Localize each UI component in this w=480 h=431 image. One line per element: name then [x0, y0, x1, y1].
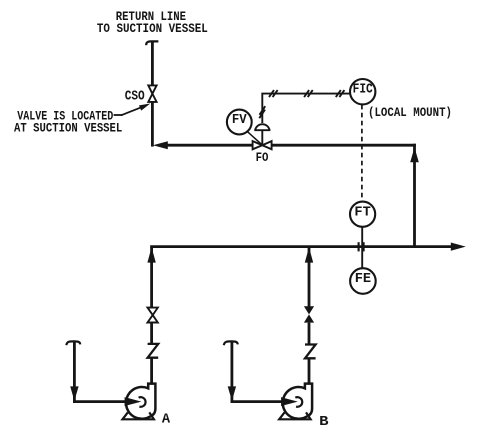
instrument bubble FT — [350, 202, 375, 227]
wire: pump B riser below break to pump nozzle — [308, 358, 311, 385]
suction arrow tip redrawn over pump B — [281, 397, 298, 406]
check valve on pump B discharge (solid) — [304, 306, 314, 322]
pneumatic slash marks on vertical signal — [259, 106, 265, 118]
svg-text:B: B — [319, 414, 329, 430]
wire: pump A riser below break to pump nozzle — [150, 358, 153, 385]
line continuation tick (pump A suction top) — [66, 341, 80, 345]
orifice plate FE taps — [359, 242, 364, 251]
wire: recirculation line horizontal (valve to right corner) — [272, 144, 416, 147]
pump B impeller arc — [295, 397, 302, 407]
svg-text:FE: FE — [355, 271, 371, 287]
valve on pump A discharge (open) — [148, 308, 158, 323]
line continuation tick (pump B suction top) — [224, 341, 238, 345]
svg-text:A: A — [162, 412, 171, 428]
wire: recirculation vertical riser at right — [410, 144, 419, 247]
valve FV control valve body — [253, 141, 272, 149]
svg-text:FO: FO — [256, 150, 269, 165]
wire: pump B suction horizontal into pump — [231, 397, 298, 406]
instrument bubble FV — [227, 110, 252, 135]
wire: pump A suction horizontal into pump — [73, 397, 141, 406]
pump A base — [123, 412, 154, 419]
wire: main discharge header — [150, 243, 466, 251]
wire: pump B discharge riser (header to valve) — [305, 247, 313, 307]
leader line from note to CSO valve — [114, 104, 151, 116]
note VALVE IS LOCATED AT SUCTION VESSEL — [14, 109, 122, 136]
svg-text:FV: FV — [232, 112, 247, 128]
valve CSO (car-seal-open gate valve) — [148, 85, 156, 102]
pump B base — [279, 412, 310, 419]
wire: pump A suction vertical — [70, 341, 78, 402]
line break symbol (Z) pump B — [305, 345, 316, 359]
leader line FV bubble to valve — [248, 132, 262, 145]
impulse line FT to orifice to FE — [361, 227, 363, 268]
svg-text:TO SUCTION VESSEL: TO SUCTION VESSEL — [97, 21, 208, 36]
valve FV diaphragm actuator — [254, 124, 270, 130]
pump B body (centrifugal) — [283, 384, 312, 419]
valve FV actuator stem — [261, 130, 263, 144]
signal line (pneumatic) from actuator up and right to FIC — [262, 94, 350, 123]
pneumatic slash marks at x=308 — [304, 90, 313, 97]
wire: pump B riser between valve and break — [308, 323, 311, 345]
pump A impeller arc — [139, 397, 146, 407]
wire: pump B suction vertical — [228, 341, 236, 402]
wire: return line vertical (below CSO valve) — [151, 102, 154, 147]
signal line (dashed) FIC down to FT — [361, 105, 363, 202]
suction arrow tip redrawn over pump A — [125, 397, 142, 406]
label RETURN LINE TO SUCTION VESSEL — [97, 9, 208, 36]
wire: pump A discharge riser (header to valve) — [147, 247, 155, 308]
svg-text:FT: FT — [354, 205, 370, 221]
wire: pump A riser between valve and break — [150, 323, 153, 345]
line continuation tick (return line top) — [146, 41, 158, 45]
pump A body (centrifugal) — [126, 384, 155, 419]
instrument bubble FIC — [350, 79, 375, 104]
svg-text:AT SUCTION VESSEL: AT SUCTION VESSEL — [14, 121, 122, 136]
svg-text:(LOCAL MOUNT): (LOCAL MOUNT) — [368, 105, 452, 120]
pneumatic slash marks at x=273 — [269, 90, 278, 97]
wire: return line vertical (above CSO valve) — [151, 41, 154, 85]
svg-text:FIC: FIC — [353, 82, 373, 97]
pneumatic slash marks at x=340 — [336, 90, 345, 97]
svg-text:CSO: CSO — [125, 90, 145, 105]
instrument bubble FE — [350, 268, 376, 294]
wire: recirculation line horizontal (left arrow into return line) — [153, 141, 253, 149]
line break symbol (Z) pump A — [148, 344, 159, 358]
